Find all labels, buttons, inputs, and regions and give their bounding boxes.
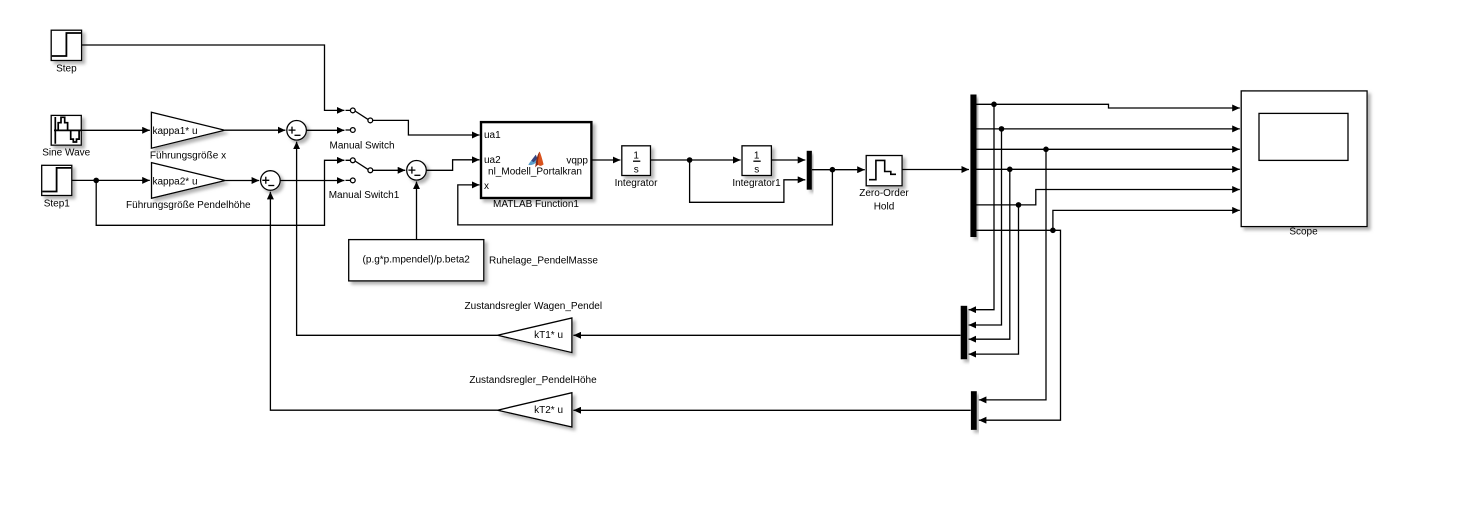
svg-text:s: s	[634, 165, 639, 176]
wire MS1 input stubs	[346, 160, 351, 180]
svg-text:Manual Switch: Manual Switch	[329, 140, 394, 151]
wire Step1 branch -> MS1 upper	[96, 160, 344, 225]
wire out4 branch -> mux M3 in3	[969, 169, 1010, 339]
wire mux M2 -> Zero-Order Hold	[812, 169, 865, 171]
svg-text:Hold: Hold	[874, 201, 895, 212]
wire MS -> MATLAB ua1	[373, 120, 480, 135]
junction Integrator out	[687, 157, 693, 163]
sum S2	[261, 171, 281, 191]
svg-text:Scope: Scope	[1289, 227, 1318, 238]
block Constant (p.g*p.mpendel)/p.beta2	[349, 240, 484, 281]
gain kappa2 (Führungsgröße Pendelhöhe)	[152, 163, 226, 199]
junction out2	[999, 126, 1005, 132]
svg-text:Ruhelage_PendelMasse: Ruhelage_PendelMasse	[489, 256, 598, 267]
sum S1	[287, 121, 307, 141]
block Step1	[42, 165, 72, 195]
wire Integrator -> Integrator1	[651, 159, 741, 161]
svg-text:vqpp: vqpp	[566, 155, 588, 166]
svg-text:s: s	[754, 165, 759, 176]
wire MS input stubs	[346, 110, 351, 130]
wire MS1 -> sum S3	[373, 169, 406, 171]
manual switch MS (upper)	[350, 108, 372, 132]
wire D1 out1 -> Scope in1	[977, 104, 1240, 108]
wire MATLAB vqpp -> Integrator	[592, 159, 621, 161]
wire out3 branch -> mux M4 in1	[979, 149, 1046, 400]
junction out5	[1016, 202, 1022, 208]
svg-text:1: 1	[633, 151, 639, 162]
wire Sine Wave -> gain kappa1	[82, 129, 150, 131]
wire Step1 -> gain kappa2	[72, 179, 150, 181]
svg-text:Zero-Order: Zero-Order	[859, 188, 909, 199]
wire M2 branch -> MATLAB x	[458, 170, 833, 225]
wire gain kT1 -> sum S1	[297, 142, 498, 336]
junction out3	[1043, 147, 1049, 153]
svg-text:(p.g*p.mpendel)/p.beta2: (p.g*p.mpendel)/p.beta2	[363, 255, 471, 266]
svg-text:ua2: ua2	[484, 155, 501, 166]
svg-text:Integrator1: Integrator1	[732, 178, 781, 189]
block Integrator	[622, 146, 651, 176]
demux D1 (6 outputs)	[970, 95, 976, 238]
wire sum S3 -> MATLAB ua2	[426, 160, 479, 171]
block Integrator1	[742, 146, 771, 176]
block MATLAB Function (nl_Modell_Portalkran)	[481, 122, 591, 198]
wire Constant -> sum S3	[416, 182, 418, 240]
svg-text:Führungsgröße Pendelhöhe: Führungsgröße Pendelhöhe	[126, 200, 251, 211]
wire mux M3 -> gain kT1	[573, 334, 960, 336]
wire D1 out5 -> Scope in5	[977, 190, 1240, 205]
wire gain kT2 -> sum S2	[270, 192, 497, 410]
wire gain kappa2 -> sum S2	[225, 180, 259, 182]
wire Zero-Order Hold -> demux D1	[902, 169, 969, 171]
block Zero-Order Hold	[866, 156, 902, 186]
wire Step -> MS upper	[82, 45, 344, 110]
svg-text:Zustandsregler Wagen_Pendel: Zustandsregler Wagen_Pendel	[465, 301, 603, 312]
junction out1	[991, 102, 997, 108]
svg-text:kappa2* u: kappa2* u	[153, 176, 198, 187]
junction out6	[1050, 228, 1056, 234]
svg-text:x: x	[484, 181, 489, 192]
gain kappa1 (Führungsgröße x)	[151, 112, 224, 148]
sum S3	[407, 161, 427, 181]
junction out4	[1007, 167, 1013, 173]
svg-text:nl_Modell_Portalkran: nl_Modell_Portalkran	[488, 167, 582, 178]
wire D1 out6 -> mux M4 in2	[977, 230, 1061, 420]
manual switch MS1 (lower)	[350, 158, 372, 183]
svg-text:1: 1	[754, 151, 760, 162]
junction M2 out	[830, 167, 836, 173]
wire D1 out3 -> Scope in3	[977, 148, 1240, 150]
svg-text:kappa1* u: kappa1* u	[153, 126, 198, 137]
svg-text:kT2* u: kT2* u	[534, 405, 563, 416]
svg-text:Integrator: Integrator	[615, 178, 658, 189]
wire sum S2 -> MS1 lower	[280, 180, 344, 182]
block Scope	[1241, 91, 1367, 227]
svg-text:Step1: Step1	[44, 199, 71, 210]
gain kT1 (Zustandsregler Wagen_Pendel)	[498, 318, 572, 353]
MATLAB logo	[528, 152, 543, 168]
wire Integrator1 -> mux M2 upper	[772, 159, 806, 161]
wire D1 out2 -> Scope in2	[977, 128, 1240, 130]
mux M4 (kT2, 2 inputs)	[971, 391, 977, 430]
mux M2 (2 inputs)	[807, 151, 812, 190]
wire out2 branch -> mux M3 in2	[969, 129, 1002, 325]
svg-text:Sine Wave: Sine Wave	[42, 148, 90, 159]
wire out1 branch -> mux M3 in1	[969, 104, 994, 309]
svg-text:Führungsgröße x: Führungsgröße x	[150, 151, 226, 162]
wire out5 branch -> mux M3 in4	[969, 205, 1019, 354]
block Step	[51, 30, 81, 60]
wire D1 out4 -> Scope in4	[977, 168, 1240, 170]
wire Integrator branch -> mux M2 lower	[690, 160, 806, 202]
wire mux M4 -> gain kT2	[573, 409, 970, 411]
svg-text:kT1* u: kT1* u	[534, 330, 563, 341]
wire out6 branch -> Scope in6	[1053, 210, 1240, 230]
mux M3 (kT1, 4 inputs)	[961, 306, 968, 360]
gain kT2 (Zustandsregler_PendelHöhe)	[498, 393, 572, 427]
block Sine Wave	[51, 115, 81, 145]
svg-text:ua1: ua1	[484, 130, 501, 141]
wire sum S1 -> MS lower	[307, 129, 345, 131]
svg-text:Manual Switch1: Manual Switch1	[329, 190, 400, 201]
svg-text:Step: Step	[56, 64, 77, 75]
wire gain kappa1 -> sum S1	[225, 129, 286, 131]
svg-text:Zustandsregler_PendelHöhe: Zustandsregler_PendelHöhe	[469, 375, 597, 386]
junction Step1	[93, 178, 99, 184]
svg-text:MATLAB Function1: MATLAB Function1	[493, 199, 579, 210]
